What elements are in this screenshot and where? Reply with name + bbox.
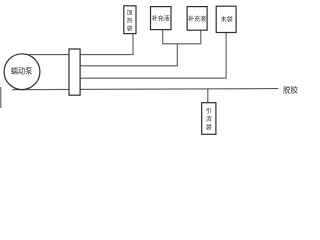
svg-text:补充液: 补充液: [188, 15, 206, 23]
svg-text:加: 加: [127, 9, 133, 17]
svg-text:引: 引: [206, 107, 212, 115]
svg-text:末袋: 末袋: [221, 16, 233, 24]
svg-text:脱胶: 脱胶: [283, 84, 298, 94]
svg-text:热: 热: [127, 17, 133, 25]
svg-text:袋: 袋: [127, 25, 133, 33]
svg-text:蠕动泵: 蠕动泵: [11, 67, 33, 76]
svg-text:流: 流: [206, 115, 212, 123]
svg-text:袋: 袋: [206, 124, 212, 132]
svg-text:补充液: 补充液: [152, 15, 170, 23]
